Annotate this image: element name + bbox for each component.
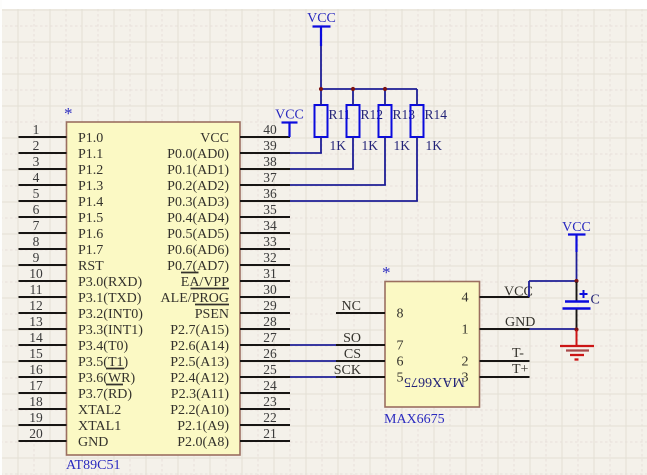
U1 pin 15 (P3.5(T1)) (19, 346, 129, 370)
svg-text:P0.6(AD6): P0.6(AD6) (167, 243, 229, 258)
junction VCC/capacitor (574, 279, 578, 283)
U1 pin 25 (P2.4(A12)) (170, 362, 290, 386)
svg-text:RST: RST (78, 259, 104, 274)
svg-text:18: 18 (29, 394, 43, 409)
wire VCC stem to bus (320, 46, 322, 89)
wire R14 bottom to pin row (290, 137, 418, 201)
svg-text:1K: 1K (426, 138, 443, 153)
svg-text:P2.5(A13): P2.5(A13) (170, 355, 229, 370)
U1 pin 39 (P0.0(AD0)) (167, 138, 290, 162)
value 1K (R14) (426, 138, 443, 153)
svg-text:7: 7 (397, 339, 404, 354)
svg-text:3: 3 (33, 154, 40, 169)
U1 pin 36 (P0.3(AD3)) (167, 186, 290, 210)
U1 pin 8 (P1.7) (19, 234, 104, 258)
svg-text:P1.2: P1.2 (78, 163, 103, 178)
svg-text:P2.6(A14): P2.6(A14) (170, 339, 229, 354)
wire U2 GND pin to ground (530, 328, 577, 330)
power VCC (decoupling) (562, 220, 591, 252)
svg-text:38: 38 (263, 154, 277, 169)
U1 pin 5 (P1.4) (19, 186, 104, 210)
junction bus/R13 (383, 87, 387, 91)
U1 pin 6 (P1.5) (19, 202, 104, 226)
resistor R12 (347, 105, 360, 137)
svg-text:CS: CS (344, 347, 361, 362)
U1 pin 3 (P1.2) (19, 154, 104, 178)
svg-text:P3.1(TXD): P3.1(TXD) (78, 291, 142, 306)
IC U1 AT89C51 body (64, 104, 240, 455)
resistor R13 (379, 105, 392, 137)
junction bus/R11 (319, 87, 323, 91)
wire R12 bottom to pin row (290, 137, 354, 169)
net label GND (U2 pin1) (505, 315, 535, 330)
net label SCK (334, 363, 361, 378)
svg-text:34: 34 (263, 218, 277, 233)
svg-text:P2.1(A9): P2.1(A9) (177, 419, 229, 434)
svg-text:22: 22 (263, 410, 277, 425)
svg-text:27: 27 (263, 330, 277, 345)
wire SCK net (pin25 to U2 pin5) (290, 376, 336, 378)
svg-text:R13: R13 (393, 107, 416, 122)
svg-text:15: 15 (29, 346, 43, 361)
U1 pin 22 (P2.1(A9)) (177, 410, 290, 434)
svg-text:P1.6: P1.6 (78, 227, 103, 242)
svg-text:39: 39 (263, 138, 277, 153)
svg-text:9: 9 (33, 250, 40, 265)
label R12 (361, 107, 384, 122)
U1 pin 37 (P0.2(AD2)) (167, 170, 290, 194)
U2 pin 8 (336, 307, 404, 322)
U1 pin 10 (P3.0(RXD)) (19, 266, 143, 290)
svg-text:P2.2(A10): P2.2(A10) (170, 403, 229, 418)
wire VCC bus over resistors (321, 88, 417, 90)
svg-text:P1.5: P1.5 (78, 211, 103, 226)
value 1K (R11) (330, 138, 347, 153)
svg-text:37: 37 (263, 170, 277, 185)
svg-text:P1.4: P1.4 (78, 195, 103, 210)
svg-text:13: 13 (29, 314, 43, 329)
junction GND/capacitor (574, 327, 578, 331)
svg-text:P3.3(INT1): P3.3(INT1) (78, 323, 143, 338)
U1 pin 27 (P2.6(A14)) (170, 330, 290, 354)
U1 pin 26 (P2.5(A13)) (170, 346, 290, 370)
svg-text:P0.4(AD4): P0.4(AD4) (167, 211, 229, 226)
svg-text:1K: 1K (394, 138, 411, 153)
wire R11 bottom to pin row (290, 137, 322, 153)
label U2 MAX6675 (384, 412, 445, 427)
svg-text:30: 30 (263, 282, 277, 297)
U1 pin 2 (P1.1) (19, 138, 104, 162)
svg-text:4: 4 (462, 291, 469, 306)
svg-text:XTAL2: XTAL2 (78, 403, 121, 418)
wire R14 top stem (416, 89, 418, 105)
svg-text:2: 2 (33, 138, 40, 153)
svg-text:R12: R12 (361, 107, 384, 122)
wire R12 top stem (352, 89, 354, 105)
U1 pin 20 (GND) (19, 426, 109, 450)
svg-text:P1.0: P1.0 (78, 131, 103, 146)
net label VCC (U2 pin4) (504, 285, 533, 300)
wire U2 VCC pin to VCC rail (529, 281, 577, 297)
U1 pin 28 (P2.7(A15)) (170, 314, 290, 338)
net label SO (343, 331, 361, 346)
svg-text:XTAL1: XTAL1 (78, 419, 121, 434)
U2 pin 3 (462, 371, 530, 386)
svg-text:31: 31 (263, 266, 277, 281)
svg-text:VCC: VCC (307, 11, 336, 26)
resistor R11 (315, 105, 328, 137)
U1 pin 32 (P0.7(AD7)) (167, 250, 290, 274)
svg-text:19: 19 (29, 410, 43, 425)
U2 pin 1 (462, 323, 530, 338)
svg-text:P2.0(A8): P2.0(A8) (177, 435, 229, 450)
svg-text:SCK: SCK (334, 363, 361, 378)
svg-text:14: 14 (29, 330, 43, 345)
svg-text:*: * (64, 104, 73, 123)
value 1K (R12) (362, 138, 379, 153)
svg-text:R14: R14 (425, 107, 448, 122)
svg-text:MAX6675: MAX6675 (384, 412, 445, 427)
svg-text:17: 17 (29, 378, 43, 393)
svg-text:28: 28 (263, 314, 277, 329)
U1 pin 16 (P3.6(WR)) (19, 362, 136, 386)
U2 pin 6 (336, 355, 404, 370)
wire R13 bottom to pin row (290, 137, 386, 185)
svg-text:5: 5 (397, 371, 404, 386)
svg-text:P2.3(A11): P2.3(A11) (171, 387, 230, 402)
svg-text:21: 21 (263, 426, 277, 441)
svg-text:P2.7(A15): P2.7(A15) (170, 323, 229, 338)
svg-text:1K: 1K (362, 138, 379, 153)
svg-text:29: 29 (263, 298, 277, 313)
svg-text:23: 23 (263, 394, 277, 409)
svg-text:36: 36 (263, 186, 277, 201)
svg-text:1: 1 (33, 122, 40, 137)
svg-text:1K: 1K (330, 138, 347, 153)
U1 pin 24 (P2.3(A11)) (171, 378, 290, 402)
svg-text:*: * (382, 263, 391, 282)
U2 pin 2 (462, 355, 530, 370)
label R11 (329, 107, 351, 122)
wire VCC vertical (576, 252, 578, 281)
svg-text:35: 35 (263, 202, 277, 217)
svg-text:8: 8 (397, 307, 404, 322)
U1 pin 30 (ALE/PROG) (161, 282, 290, 306)
U1 pin 19 (XTAL1) (19, 410, 122, 434)
U1 pin 34 (P0.5(AD5)) (167, 218, 290, 242)
value 1K (R13) (394, 138, 411, 153)
svg-text:1: 1 (462, 323, 469, 338)
power VCC (pull-up bus) (307, 11, 336, 46)
svg-text:P1.1: P1.1 (78, 147, 103, 162)
svg-text:8: 8 (33, 234, 40, 249)
U1 pin 38 (P0.1(AD1)) (167, 154, 290, 178)
net label NC (342, 299, 361, 314)
svg-text:20: 20 (29, 426, 43, 441)
U2 pin 7 (336, 339, 404, 354)
svg-text:24: 24 (263, 378, 277, 393)
IC U2 MAX6675 body (382, 263, 480, 407)
svg-text:VCC: VCC (200, 131, 229, 146)
net label CS (344, 347, 361, 362)
svg-text:P0.1(AD1): P0.1(AD1) (167, 163, 229, 178)
U1 pin 23 (P2.2(A10)) (170, 394, 290, 418)
U1 pin 31 (EA/VPP) (181, 266, 290, 290)
svg-text:33: 33 (263, 234, 277, 249)
svg-text:P3.4(T0): P3.4(T0) (78, 339, 129, 354)
svg-text:25: 25 (263, 362, 277, 377)
resistor R14 (411, 105, 424, 137)
label U1 AT89C51 (66, 458, 120, 473)
svg-text:6: 6 (397, 355, 404, 370)
U1 pin 14 (P3.4(T0)) (19, 330, 129, 354)
svg-text:P3.7(RD): P3.7(RD) (78, 387, 132, 402)
svg-text:7: 7 (33, 218, 40, 233)
svg-text:16: 16 (29, 362, 43, 377)
svg-text:32: 32 (263, 250, 277, 265)
svg-text:GND: GND (78, 435, 108, 450)
U1 pin 33 (P0.6(AD6)) (167, 234, 290, 258)
svg-text:3: 3 (462, 371, 469, 386)
U1 pin 13 (P3.3(INT1)) (19, 314, 144, 338)
svg-text:P1.3: P1.3 (78, 179, 103, 194)
U1 pin 12 (P3.2(INT0)) (19, 298, 144, 322)
svg-text:6: 6 (33, 202, 40, 217)
U1 pin 7 (P1.6) (19, 218, 104, 242)
svg-text:P1.7: P1.7 (78, 243, 103, 258)
svg-text:10: 10 (29, 266, 43, 281)
wire R13 top stem (384, 89, 386, 105)
U1 pin 21 (P2.0(A8)) (177, 426, 290, 450)
svg-text:GND: GND (505, 315, 535, 330)
U1 pin 35 (P0.4(AD4)) (167, 202, 290, 226)
svg-text:P0.2(AD2): P0.2(AD2) (167, 179, 229, 194)
U1 pin 40 (VCC) (200, 122, 290, 146)
svg-text:C: C (591, 293, 600, 308)
svg-text:P2.4(A12): P2.4(A12) (170, 371, 229, 386)
ground (560, 330, 594, 360)
svg-text:SO: SO (343, 331, 361, 346)
svg-text:4: 4 (33, 170, 40, 185)
svg-text:40: 40 (263, 122, 277, 137)
svg-text:VCC: VCC (275, 108, 304, 123)
svg-text:P3.2(INT0): P3.2(INT0) (78, 307, 143, 322)
svg-text:AT89C51: AT89C51 (66, 458, 120, 473)
svg-text:T+: T+ (512, 362, 529, 377)
net label T- (512, 346, 524, 361)
U1 pin 17 (P3.7(RD)) (19, 378, 133, 402)
capacitor C (563, 282, 591, 329)
svg-text:PSEN: PSEN (195, 307, 229, 322)
svg-text:MAX6675: MAX6675 (404, 374, 465, 389)
svg-text:2: 2 (462, 355, 469, 370)
label R13 (393, 107, 416, 122)
net label T+ (512, 362, 529, 377)
label R14 (425, 107, 448, 122)
junction bus/R12 (351, 87, 355, 91)
power VCC (pin 40) (275, 108, 304, 138)
U1 pin 11 (P3.1(TXD)) (19, 282, 142, 306)
wire R11 top stem (320, 89, 322, 105)
svg-text:NC: NC (342, 299, 361, 314)
svg-text:11: 11 (30, 282, 43, 297)
U1 pin 1 (P1.0) (19, 122, 104, 146)
svg-text:12: 12 (29, 298, 43, 313)
wire SO net (pin27 to U2 pin7) (290, 344, 336, 346)
wire CS net (pin26 to U2 pin6) (290, 360, 336, 362)
U1 pin 9 (RST) (19, 250, 105, 274)
U2 pin 4 (462, 291, 530, 306)
U2 pin 5 (336, 371, 404, 386)
svg-text:VCC: VCC (562, 220, 591, 235)
svg-text:P0.3(AD3): P0.3(AD3) (167, 195, 229, 210)
svg-text:5: 5 (33, 186, 40, 201)
U1 pin 4 (P1.3) (19, 170, 104, 194)
U1 pin 29 (PSEN) (195, 298, 290, 322)
label C (591, 293, 600, 308)
svg-text:T-: T- (512, 346, 524, 361)
svg-text:P3.0(RXD): P3.0(RXD) (78, 275, 143, 290)
svg-text:P0.5(AD5): P0.5(AD5) (167, 227, 229, 242)
svg-text:26: 26 (263, 346, 277, 361)
U1 pin 18 (XTAL2) (19, 394, 122, 418)
svg-text:P0.0(AD0): P0.0(AD0) (167, 147, 229, 162)
